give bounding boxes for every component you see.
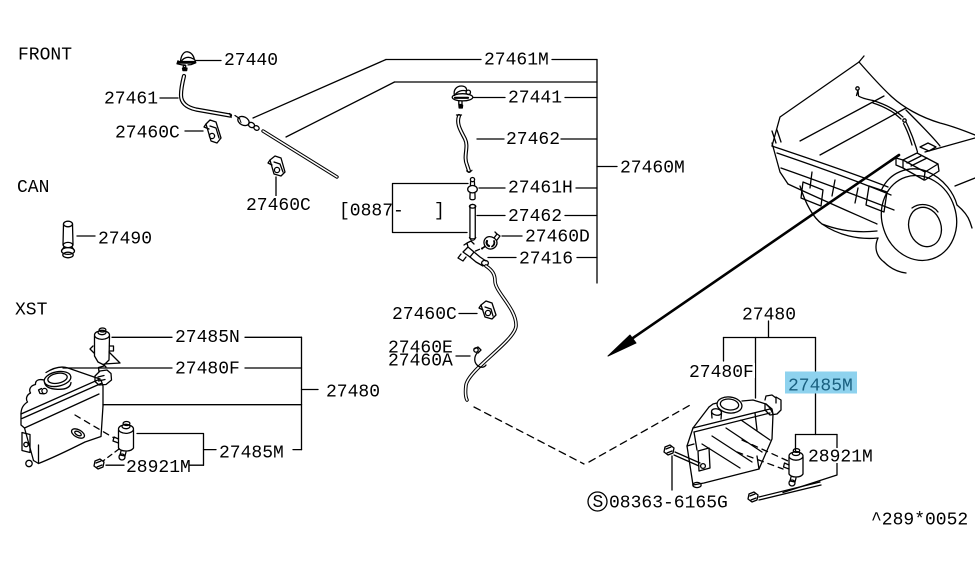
leader 27441 [474,97,598,99]
svg-text:27460D: 27460D [525,228,590,248]
svg-text:27480F: 27480F [689,363,754,383]
svg-text:27460C: 27460C [246,196,311,216]
hose 27462 (upper) [458,116,469,171]
leader tank to bracket [103,404,302,406]
hose 27461 (washer tube) [181,76,230,116]
leader 27460M [597,166,617,168]
leader 08363 [671,456,673,490]
reservoir tank 27480 (right) [687,395,781,488]
bolt 08363-6165G [664,445,700,466]
washer hose on truck hood [856,87,859,90]
hose 27462 (lower straight) [469,207,476,238]
svg-text:27460A: 27460A [388,352,453,372]
dashed V line from hose end to tank [474,407,584,464]
leader 27460C first [185,130,203,132]
leader 27490 [77,235,95,237]
svg-text:27461M: 27461M [484,51,549,71]
svg-text:XST: XST [15,301,48,321]
grommet 27460E/27460A [474,347,486,367]
svg-text:27440: 27440 [224,51,278,71]
right section: bracket 27480 [768,321,770,338]
svg-text:27441: 27441 [508,89,562,109]
diagonal leader line 2 [286,82,395,137]
dashed assembly lines right [742,440,788,461]
leader 27440 [196,60,221,62]
bracket 27480 XST vertical [301,337,303,449]
big arrow from truck to diagram [630,155,899,340]
truck illustration [772,56,975,273]
leader 27460D [502,235,522,237]
label 27460C second [245,196,312,211]
highlight 27485M [785,372,857,394]
leader 27460C second [275,177,277,196]
svg-text:27490: 27490 [98,230,152,250]
bracket [0887- ] [393,184,469,233]
svg-text:CAN: CAN [17,178,49,198]
leader 28921M XST [106,464,204,466]
truck wheel [871,166,968,271]
clamp 27460D [482,232,500,249]
bracket 27460M vertical [596,60,598,284]
pump 27485N [90,328,120,367]
svg-text:27461: 27461 [104,90,158,110]
bracket 27460M: top line to 27461M [386,59,597,61]
leader 27485M XST [137,434,204,466]
leader 27461 [160,97,178,99]
hose 27461 thin section to cowl [263,131,337,177]
assembly dashes near 27460D [476,247,485,251]
leader 27480F (XST) [63,367,302,369]
nozzle 27440 [177,52,196,71]
svg-text:^289*0052: ^289*0052 [871,511,968,531]
connector joint on hose 27461 [235,115,260,132]
leader 27485N [112,336,302,338]
diagonal leader line 1 (to hood area) [253,60,386,119]
svg-text:27485M: 27485M [219,444,284,464]
XST reservoir tank 27480 [21,366,112,467]
svg-text:27460C: 27460C [392,305,457,325]
label S 08363-6165G [588,492,607,511]
clip 27460C (second) [268,156,285,176]
svg-text:27416: 27416 [519,250,573,270]
truck fender [881,169,957,205]
label 28921M right [807,448,873,463]
svg-text:27460M: 27460M [620,159,685,179]
bracket 28921M right [796,434,838,436]
leader 27462 upper [477,138,597,140]
pump 27485M (XST) [113,422,134,461]
svg-text:27461H: 27461H [508,179,573,199]
washer tank on truck fender [903,153,938,172]
svg-text:[0887-: [0887- [339,202,404,222]
bracket second top line [395,81,598,83]
svg-text:27462: 27462 [506,130,560,150]
connector 27461H [468,178,478,200]
svg-text:27462: 27462 [508,207,562,227]
svg-text:S: S [593,493,604,513]
clip 27460C (first) [204,120,221,143]
svg-text:28921M: 28921M [126,458,191,478]
svg-text:27460C: 27460C [115,124,180,144]
grommet 28921M XST [94,459,104,469]
pump 27485M (right) [784,449,804,486]
svg-text:08363-6165G: 08363-6165G [609,494,728,514]
leader 27460E/A [456,355,470,357]
dashed assembly lines XST [75,415,114,438]
leader 27462 lower [477,215,597,217]
svg-text:27480F: 27480F [175,360,240,380]
svg-text:27480: 27480 [326,383,380,403]
svg-text:]: ] [434,202,445,222]
svg-text:27485N: 27485N [175,328,240,348]
CAN valve 27490 [62,221,75,258]
svg-text:FRONT: FRONT [18,46,72,66]
svg-text:28921M: 28921M [808,448,873,468]
clip 27460C (third) [479,301,496,319]
svg-text:27480: 27480 [742,306,796,326]
svg-text:27485M: 27485M [788,377,853,397]
joint 27416 [458,241,488,266]
leader 27416 [488,257,597,259]
label 27480F right [688,363,755,378]
nozzle 27441 [452,86,473,108]
leader 27460C third [459,313,477,315]
grommet 28921M right [748,482,821,502]
leader 27480 XST [302,389,319,391]
leader 27461H [479,187,597,189]
hose from 27416 down to cowl grommet [466,266,516,400]
